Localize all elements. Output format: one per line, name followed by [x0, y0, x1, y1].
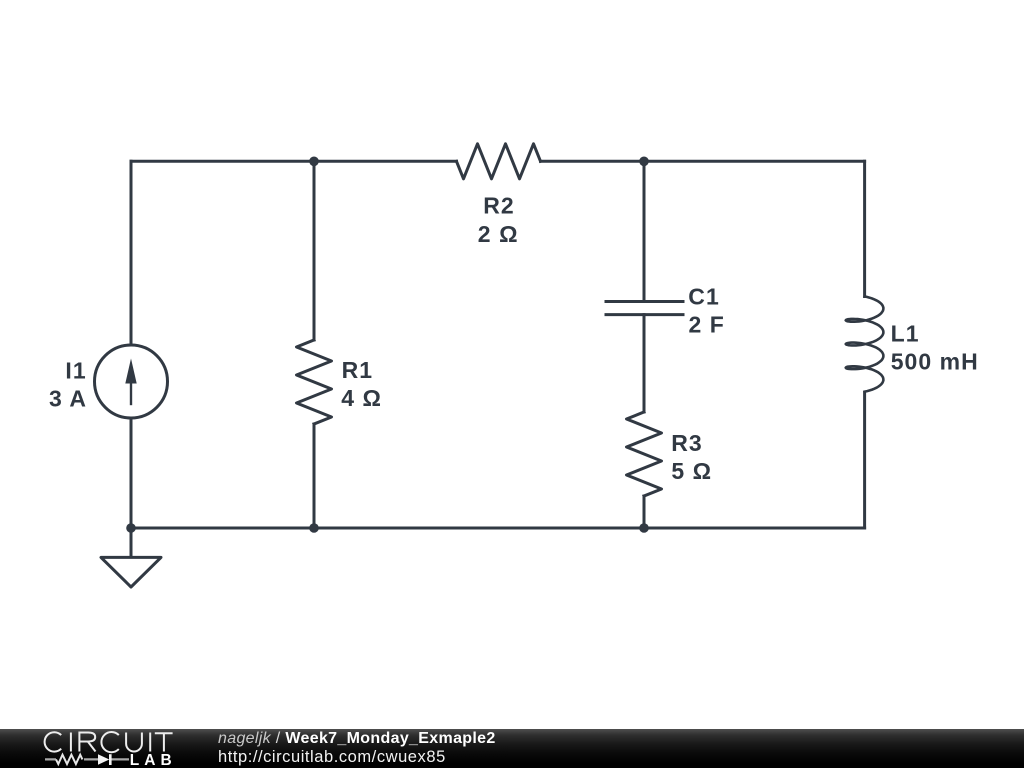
logo letter C [45, 732, 62, 751]
wire left rail lower [130, 418, 133, 528]
wire left rail upper [130, 161, 133, 345]
svg-text:L1: L1 [891, 320, 920, 346]
logo diode cathode bar [109, 754, 112, 765]
logo letter U [126, 733, 142, 752]
svg-text:R1: R1 [342, 357, 374, 383]
logo resistor zigzag [56, 755, 82, 764]
logo letter I [149, 733, 151, 752]
logo letter I [70, 733, 72, 752]
svg-text:4 Ω: 4 Ω [341, 385, 382, 411]
logo resistor-diode underline wire [45, 758, 129, 760]
svg-text:3 A: 3 A [49, 385, 87, 411]
node bottom junction at R3 [639, 523, 649, 533]
wire R1 bottom lead [313, 424, 316, 528]
wire right rail lower [863, 393, 866, 529]
logo diode [98, 754, 109, 764]
svg-text:R3: R3 [671, 430, 703, 456]
wire R3 bottom lead [643, 496, 646, 528]
wire top rail left segment [131, 160, 457, 163]
svg-text:C1: C1 [688, 283, 720, 309]
logo letter T [155, 733, 173, 751]
svg-text:500 mH: 500 mH [891, 348, 979, 374]
footer bar [0, 729, 1024, 768]
CircuitLab logo wordmark CIRCUIT [0, 729, 240, 768]
wire top rail right segment [541, 160, 865, 163]
footer title line: nageljk / Week7_Monday_Exmaple2 [218, 731, 496, 747]
resistor R1 [297, 340, 332, 424]
current source I1 [95, 345, 168, 418]
logo letter R [79, 733, 95, 752]
svg-text:2 F: 2 F [689, 311, 725, 337]
wire ground tap [130, 528, 133, 557]
svg-text:LAB: LAB [130, 752, 177, 768]
svg-text:2 Ω: 2 Ω [478, 221, 519, 247]
node ground-left junction [126, 523, 136, 533]
resistor R3 [627, 412, 662, 496]
logo letter C [101, 732, 118, 752]
ground [101, 557, 161, 587]
node B top junction at C1 [639, 157, 649, 167]
node bottom junction at R1 [309, 523, 319, 533]
svg-text:5 Ω: 5 Ω [671, 458, 712, 484]
node A top junction at R1 [309, 157, 319, 167]
wire R1 top lead [313, 161, 316, 340]
svg-text:I1: I1 [65, 357, 86, 383]
inductor L1 [846, 296, 884, 391]
footer url line: http://circuitlab.com/cwuex85 [218, 749, 446, 765]
wire bottom rail [131, 527, 865, 530]
capacitor C1 [606, 302, 683, 315]
resistor R2 [457, 144, 541, 179]
wire right rail upper [863, 161, 866, 296]
svg-text:R2: R2 [483, 193, 515, 219]
wire C1 top lead [643, 161, 646, 301]
wire C1-R3 middle lead [643, 315, 646, 412]
